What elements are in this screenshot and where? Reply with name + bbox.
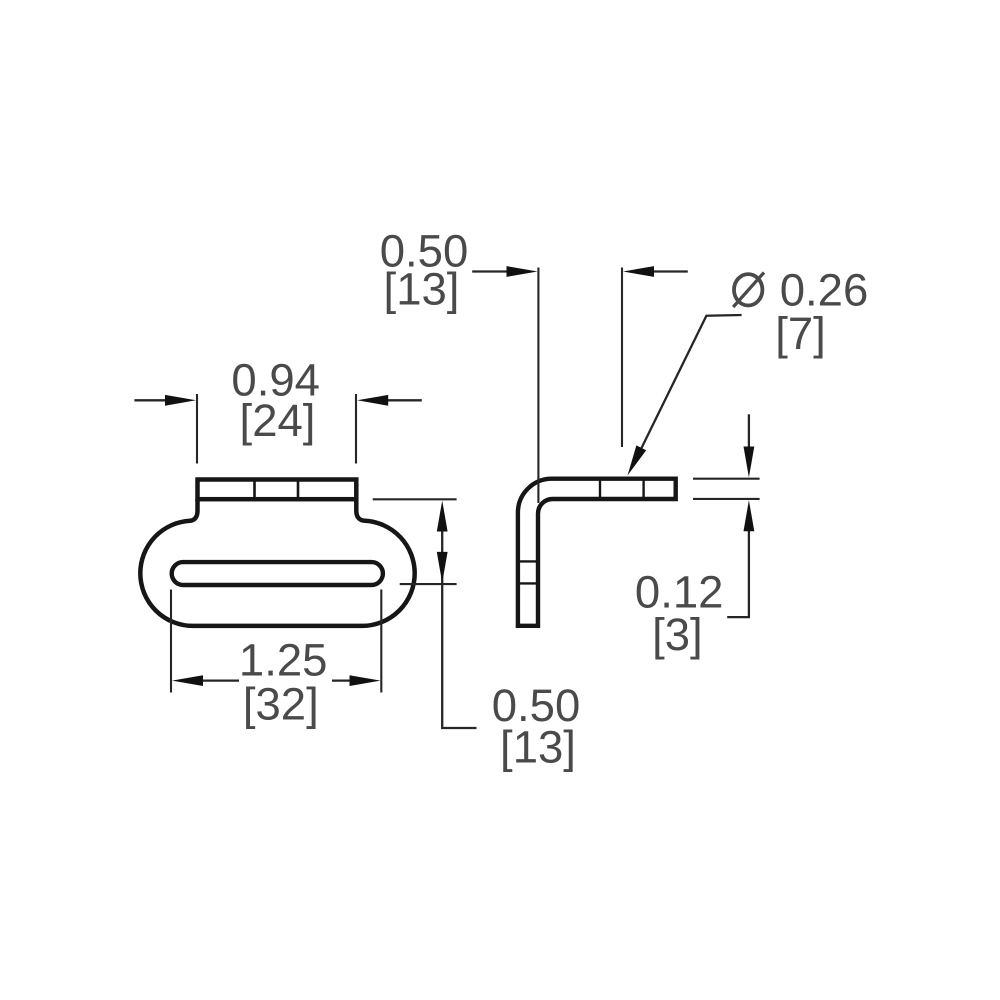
dimension 0.94 [24]: extension lines (197, 394, 356, 464)
front right 0.50 [13]: dim line with two arrows and jog to text (442, 531, 476, 728)
svg-text:[3]: [3] (652, 609, 703, 660)
front view: tab bend tick lines (255, 480, 299, 499)
svg-text:[13]: [13] (500, 722, 576, 773)
front view: slot (172, 562, 383, 585)
svg-text:[13]: [13] (384, 264, 460, 315)
thickness 0.12 [3]: upper dim line and arrow (748, 414, 750, 447)
side view: vertical leg tick lines (518, 561, 538, 583)
side view: horizontal leg tick lines (600, 479, 644, 499)
top 0.50 [13]: right dim line and arrow (652, 270, 688, 272)
dimension 0.94 [24]: right dim line and arrow (386, 399, 422, 401)
front view: body outline (140, 499, 414, 626)
front view: tab rectangle (198, 480, 357, 500)
hole diameter leader line (642, 315, 742, 448)
side view: L-profile outline (518, 479, 676, 626)
svg-text:[24]: [24] (240, 395, 316, 446)
dimension 1.25 [32]: left dim line and arrow (200, 679, 239, 681)
svg-text:[32]: [32] (243, 679, 319, 730)
dimension 1.25 [32]: right dim line and arrow (332, 679, 352, 681)
dimension 1.25 [32]: extension lines (171, 590, 381, 693)
hole diameter leader arrowhead (628, 445, 647, 475)
thickness 0.12 [3]: lower dim line with arrow and jog (727, 530, 749, 617)
hole diameter symbol (734, 274, 762, 305)
thickness 0.12 [3]: extension lines (693, 479, 760, 499)
svg-text:[7]: [7] (775, 308, 826, 359)
front right 0.50 [13]: extension lines (373, 499, 457, 584)
top 0.50 [13]: left dim line and arrow (472, 270, 508, 272)
dimension 0.94 [24]: left dim line and arrow (134, 399, 167, 401)
top 0.50 [13]: extension lines (538, 268, 622, 504)
